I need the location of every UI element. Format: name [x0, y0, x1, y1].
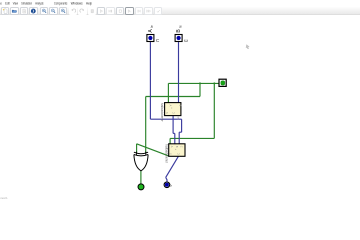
svg-text:e: e	[0, 1, 2, 6]
wire: green h y=138.4	[170, 137, 214, 139]
toolbar button: run circle	[29, 7, 38, 15]
wire: blue diagonal IC2 out	[166, 156, 179, 177]
wire: green stub into IC2	[169, 138, 171, 143]
toolbar button: run to break (disabled)	[135, 7, 144, 15]
toolbar button: step (darker border)	[125, 7, 134, 15]
wire: blue pin A down	[149, 42, 151, 119]
svg-text:Windows: Windows	[71, 1, 83, 5]
wire: blue h y=119.2	[150, 118, 181, 120]
wire: green v x=200	[199, 83, 201, 96]
mouse cursor	[246, 45, 249, 49]
wire: green net h y=83.4	[168, 82, 219, 84]
svg-text:Components: Components	[54, 1, 68, 6]
wire: green diagonal IC2 to xor-left corner	[137, 144, 169, 156]
toolbar button: step over (disabled)	[144, 7, 153, 15]
output LED (green)	[138, 184, 144, 190]
svg-text:Analysis: Analysis	[35, 1, 43, 6]
toolbar button: save (disabled)	[20, 7, 29, 15]
wire: blue pin B down to IC1	[178, 42, 180, 103]
wire: green v x=145.7 xor right input	[145, 97, 147, 153]
svg-text:ω: ω	[184, 38, 188, 44]
svg-text:Edit: Edit	[5, 1, 9, 6]
svg-text:le: le	[178, 25, 182, 28]
input pin carry (green, value 1)	[219, 79, 226, 86]
output pin sum (blue)	[164, 182, 173, 188]
svg-text:C: C	[156, 38, 160, 44]
toolbar button: run tests (disabled)	[154, 7, 163, 15]
input pin B	[175, 25, 188, 44]
toolbar button: open folder	[10, 7, 19, 15]
wire: blue jog right	[173, 132, 175, 134]
toolbar button: redo (disabled)	[78, 7, 87, 15]
svg-text:C: C	[179, 146, 182, 148]
svg-text:View: View	[13, 1, 19, 6]
svg-text:B: B	[176, 29, 182, 33]
svg-text:le: le	[150, 25, 154, 28]
toolbar button: sim micro (disabled)	[106, 7, 115, 15]
wire: green h y=96.5	[146, 96, 200, 98]
wire: green xor output to LED	[140, 171, 142, 184]
svg-text:halbaddierer: halbaddierer	[165, 144, 169, 164]
wire: blue v x=181.6	[181, 119, 183, 132]
toolbar button: zoom out	[49, 7, 58, 15]
toolbar strip	[0, 7, 360, 16]
toolbar button: zoom in	[40, 7, 49, 15]
svg-text:Help: Help	[86, 1, 92, 6]
junction dot 214.3,83.4	[213, 82, 215, 84]
wire: blue IC1 out down	[172, 116, 174, 134]
menu bar text	[0, 1, 92, 6]
IC U1 half-adder	[160, 103, 182, 123]
toolbar button: sim start (disabled)	[97, 7, 106, 15]
svg-text:C: C	[172, 112, 175, 114]
svg-text:Simulation: Simulation	[21, 1, 32, 6]
wire: green v x=214.3	[213, 83, 215, 138]
wire: green v xor left input	[136, 144, 138, 153]
xor gate U3	[134, 152, 148, 171]
svg-text:su: su	[177, 117, 181, 121]
toolbar button: new file	[1, 7, 10, 15]
svg-text:halbaddierer: halbaddierer	[160, 103, 164, 123]
toolbar button: delete (disabled)	[88, 7, 97, 15]
wire: blue v into IC2	[178, 132, 180, 144]
toolbar button: zoom fit	[59, 7, 68, 15]
toolbar button: undo (disabled)	[69, 7, 78, 15]
input pin A	[147, 25, 160, 44]
IC U2 half-adder	[165, 144, 186, 164]
svg-text:A: A	[148, 29, 154, 33]
wire: green v x=168.4	[167, 83, 169, 102]
wire: blue jog left	[179, 131, 181, 133]
wire: blue v into IC2 second	[174, 133, 176, 143]
svg-text:C: C	[177, 153, 180, 155]
junction dot 200,83.4	[199, 82, 201, 84]
wire: blue zigzag to output	[166, 177, 167, 182]
toolbar button: sim stop (disabled)	[116, 7, 125, 15]
svg-text:mod 1: mod 1	[0, 196, 8, 200]
